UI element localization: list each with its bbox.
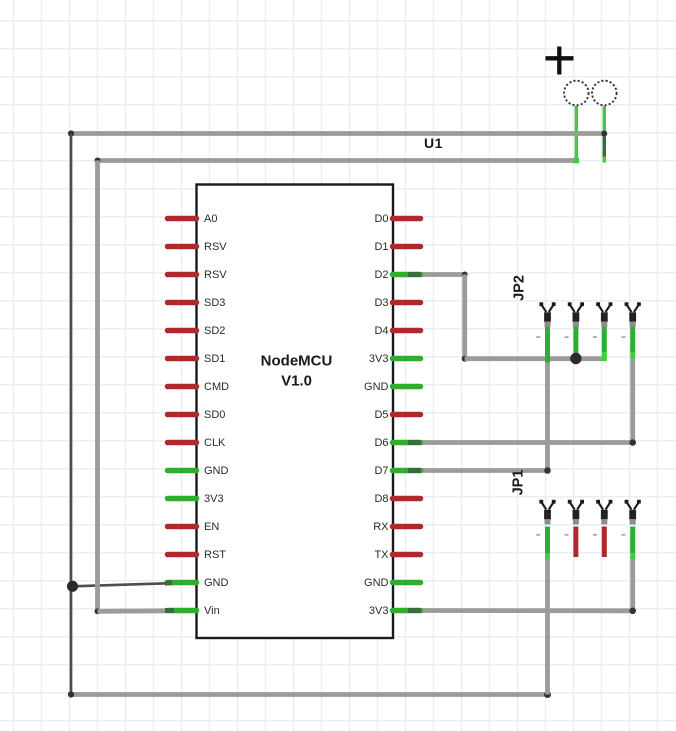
svg-text:3V3: 3V3: [369, 353, 389, 365]
wire D2 horizontal to JP2: [465, 356, 607, 361]
U2 right pin GND: [364, 381, 420, 393]
svg-text:D6: D6: [374, 437, 388, 449]
U2 left pin SD0: [168, 409, 226, 421]
U2 left pin CLK: [168, 437, 227, 449]
JP1 pin 2: [565, 500, 584, 557]
wire JP1 pin 1 vertical to bottom wire: [545, 556, 550, 695]
svg-text:D5: D5: [374, 409, 388, 421]
svg-text:EN: EN: [204, 521, 219, 533]
svg-text:SD1: SD1: [204, 353, 225, 365]
U2 right pin 3V3: [369, 353, 421, 365]
svg-text:D4: D4: [374, 325, 388, 337]
wire dark vertical (GND bus) left side: [70, 134, 73, 695]
junction bottom-right: [544, 691, 551, 698]
svg-text:3V3: 3V3: [369, 605, 389, 617]
wire endpoint marker at U1 pin 1: [574, 158, 580, 164]
IC U2 NodeMCU V1.0 body: [197, 185, 394, 639]
junction JP2 pin 2 (big dot): [570, 353, 581, 364]
svg-text:RST: RST: [204, 549, 226, 561]
node corner top-left: [68, 130, 74, 136]
JP2 pin 2: [565, 302, 584, 353]
svg-text:SD2: SD2: [204, 325, 225, 337]
wire D2 vertical: [462, 275, 467, 359]
JP2 pin 3: [593, 302, 612, 361]
wire from U2 D2 pin: [421, 272, 465, 277]
wire endpoint marker at U1 pin 2: [603, 157, 606, 163]
wire dark from GND junction to U2 GND pin: [73, 583, 169, 586]
svg-text:3V3: 3V3: [204, 493, 224, 505]
wire from corner to U1 pin 2 (top horizontal): [71, 131, 604, 136]
wire from U2 3V3 pin to JP1 pin 4: [421, 608, 633, 613]
JP1 pin 1: [536, 500, 555, 560]
U2 right pin D0: [374, 213, 420, 225]
node corner D2 wire bottom: [462, 356, 468, 362]
svg-text:D3: D3: [374, 297, 388, 309]
connector U1 pin 1 (green lead): [575, 106, 578, 163]
U2 left pin GND: [165, 577, 229, 589]
node corner Vin wire: [95, 608, 101, 614]
wire gray horizontal to U2 Vin pin: [98, 608, 169, 613]
svg-text:JP1: JP1: [511, 470, 527, 496]
svg-text:RSV: RSV: [204, 241, 227, 253]
node corner second wire: [95, 158, 101, 164]
junction at U1 pin 2: [601, 131, 607, 137]
svg-text:D8: D8: [374, 493, 388, 505]
U2 left pin EN: [168, 521, 220, 533]
U2 right pin D6: [374, 437, 421, 449]
label NodeMCU V1.0: [261, 353, 333, 390]
wire from U2 D6 pin to JP2 pin 4: [421, 440, 633, 445]
U2 right pin D7: [374, 465, 421, 477]
connector U1 terminal pad 2: [592, 81, 617, 106]
svg-text:D2: D2: [374, 269, 388, 281]
wire JP2 pin 4 vertical: [630, 359, 635, 443]
U2 left pin Vin: [165, 605, 220, 617]
svg-text:RX: RX: [373, 521, 389, 533]
svg-text:JP2: JP2: [512, 275, 528, 301]
U2 right pin 3V3: [369, 605, 421, 617]
junction D7: [544, 467, 551, 474]
U2 left pin RSV: [168, 241, 228, 253]
node corner D2 wire top: [462, 272, 468, 278]
svg-text:RSV: RSV: [204, 269, 227, 281]
svg-text:TX: TX: [374, 549, 389, 561]
U2 left pin 3V3: [168, 493, 224, 505]
wire from corner to U1 pin 1 (second horizontal): [98, 158, 577, 163]
U2 right pin D2: [374, 269, 421, 281]
U2 right pin D8: [374, 493, 420, 505]
svg-text:GND: GND: [364, 577, 389, 589]
connector U1 plus sign: [546, 47, 574, 75]
U2 right pin D3: [374, 297, 420, 309]
wire from U2 D7 pin to JP2 pin 1: [421, 468, 548, 473]
svg-text:CMD: CMD: [204, 381, 229, 393]
svg-text:V1.0: V1.0: [281, 373, 312, 390]
U2 left pin SD1: [168, 353, 226, 365]
junction D6: [629, 439, 636, 446]
svg-text:D0: D0: [374, 213, 388, 225]
wire bottom horizontal: [71, 692, 548, 697]
connector U1 terminal pad 1: [564, 81, 589, 106]
U2 right pin RX: [373, 521, 420, 533]
U2 left pin RST: [168, 549, 227, 561]
U2 left pin A0: [168, 213, 218, 225]
svg-text:D7: D7: [374, 465, 388, 477]
U2 left pin CMD: [168, 381, 230, 393]
U2 left pin SD3: [168, 297, 226, 309]
JP2 pin 4: [621, 302, 640, 358]
junction GND (big dot): [67, 581, 78, 592]
svg-text:GND: GND: [204, 465, 229, 477]
JP1 pin 3: [593, 500, 612, 557]
svg-text:SD0: SD0: [204, 409, 225, 421]
svg-text:U1: U1: [424, 135, 443, 151]
U2 right pin D1: [374, 241, 420, 253]
U2 left pin GND: [168, 465, 229, 477]
U2 right pin TX: [374, 549, 420, 561]
svg-text:SD3: SD3: [204, 297, 225, 309]
U2 left pin SD2: [168, 325, 226, 337]
junction 3V3 JP1: [629, 608, 636, 615]
svg-text:NodeMCU: NodeMCU: [261, 353, 333, 370]
wire JP2 pin 1 vertical: [545, 362, 550, 471]
wire JP1 pin 4 vertical: [630, 556, 635, 611]
svg-text:GND: GND: [364, 381, 389, 393]
JP1 pin 4: [621, 500, 640, 560]
connector U1 pin 2 (green lead): [603, 106, 606, 163]
U2 right pin GND: [364, 577, 420, 589]
U2 left pin RSV: [168, 269, 228, 281]
svg-text:GND: GND: [204, 577, 229, 589]
svg-text:Vin: Vin: [204, 605, 220, 617]
U2 right pin D5: [374, 409, 420, 421]
svg-text:A0: A0: [204, 213, 217, 225]
JP2 pin 1: [536, 302, 555, 362]
wire gray vertical (Vin): [95, 161, 100, 612]
svg-text:CLK: CLK: [204, 437, 226, 449]
wire vertical segment over U1 pin 2: [603, 136, 606, 158]
node corner bottom-left: [68, 691, 74, 697]
svg-text:D1: D1: [374, 241, 388, 253]
U2 right pin D4: [374, 325, 420, 337]
